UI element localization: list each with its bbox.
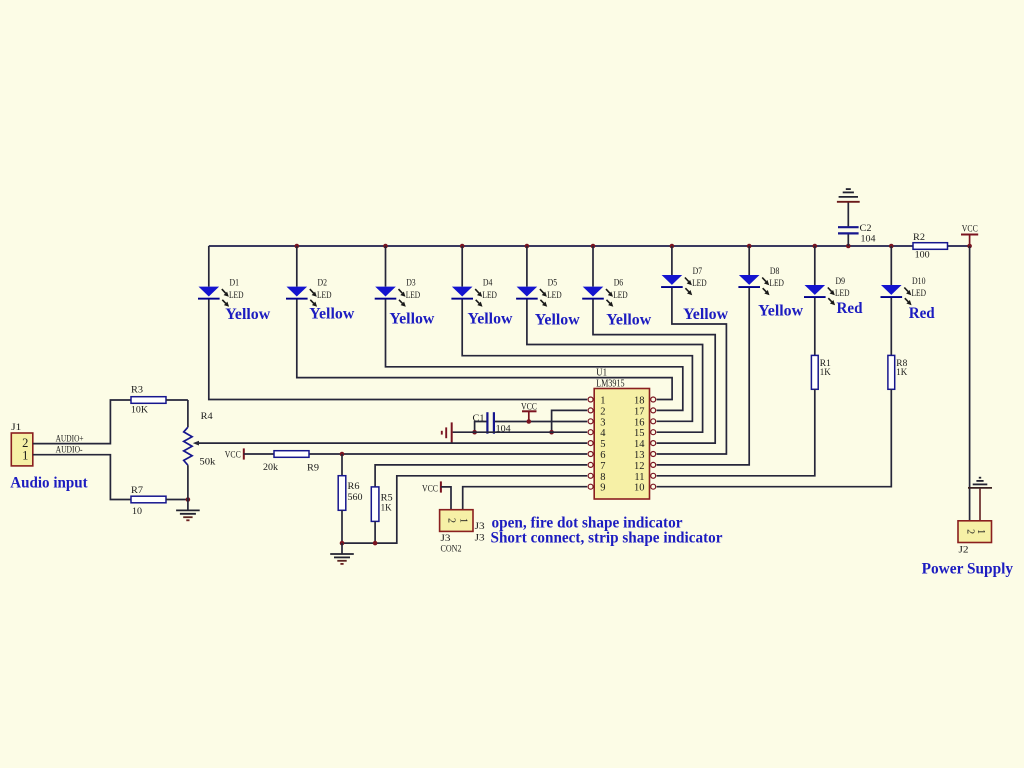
- svg-text:Yellow: Yellow: [468, 311, 513, 328]
- resistor R9: [244, 451, 587, 474]
- node R9/R6 junction: [340, 452, 345, 457]
- svg-text:5: 5: [600, 439, 605, 450]
- ground below R6: [330, 543, 354, 564]
- svg-text:1: 1: [457, 518, 468, 523]
- label Power Supply: [922, 561, 1014, 578]
- svg-text:104: 104: [861, 235, 876, 245]
- svg-text:LED: LED: [482, 291, 497, 301]
- wire AUDIO-: [33, 446, 131, 500]
- pin 2: [588, 406, 605, 417]
- node rail junctions: [295, 244, 972, 249]
- svg-text:8: 8: [600, 472, 605, 483]
- power VCC top right: [961, 224, 978, 246]
- LED D4: [451, 246, 692, 421]
- svg-text:LED: LED: [317, 291, 332, 301]
- svg-text:J3: J3: [441, 534, 451, 544]
- svg-text:50k: 50k: [199, 457, 215, 467]
- svg-text:VCC: VCC: [422, 484, 438, 494]
- note text line2: [491, 530, 723, 547]
- pin 4: [588, 428, 606, 439]
- svg-text:D8: D8: [770, 267, 780, 277]
- LED D1: [198, 246, 587, 400]
- svg-text:D6: D6: [614, 279, 624, 289]
- connector J2 power supply: [958, 521, 992, 556]
- svg-text:J2: J2: [959, 546, 969, 556]
- svg-text:1K: 1K: [820, 368, 831, 378]
- potentiometer R4: [184, 400, 216, 500]
- svg-text:1: 1: [600, 396, 605, 407]
- svg-text:LED: LED: [229, 291, 244, 301]
- svg-text:LED: LED: [613, 291, 628, 301]
- svg-text:6: 6: [600, 450, 605, 461]
- svg-text:11: 11: [634, 472, 644, 483]
- wire pin3 net: [495, 421, 587, 423]
- svg-text:Red: Red: [837, 300, 863, 317]
- resistor R1: [657, 355, 831, 475]
- label Audio input: [10, 474, 88, 491]
- resistor R7: [131, 486, 188, 517]
- LED D6: [582, 246, 715, 443]
- svg-text:R7: R7: [131, 486, 143, 496]
- resistor R3: [131, 386, 188, 416]
- svg-text:AUDIO-: AUDIO-: [56, 446, 83, 456]
- svg-text:18: 18: [634, 396, 645, 407]
- svg-text:Yellow: Yellow: [225, 306, 270, 323]
- svg-text:R6: R6: [348, 482, 360, 492]
- svg-text:Yellow: Yellow: [606, 312, 651, 329]
- svg-text:100: 100: [915, 250, 930, 260]
- LED D10: [881, 246, 927, 355]
- ground at pin4: [442, 422, 452, 443]
- svg-text:R3: R3: [131, 386, 143, 396]
- label Yellow D8: [758, 303, 803, 320]
- svg-text:D2: D2: [318, 279, 328, 289]
- ground below R7: [176, 500, 200, 521]
- svg-text:7: 7: [600, 461, 605, 472]
- svg-text:CON2: CON2: [441, 545, 462, 555]
- label Yellow D7: [683, 306, 728, 323]
- svg-text:Power Supply: Power Supply: [922, 561, 1014, 578]
- svg-text:AUDIO+: AUDIO+: [56, 434, 84, 444]
- LED D2: [286, 246, 672, 400]
- capacitor C2: [838, 202, 876, 246]
- LED D7: [657, 246, 727, 454]
- svg-text:D7: D7: [693, 267, 703, 277]
- svg-text:LED: LED: [835, 289, 850, 299]
- svg-text:17: 17: [634, 406, 645, 417]
- svg-text:R5: R5: [381, 493, 393, 503]
- svg-text:3: 3: [600, 417, 605, 428]
- power VCC at J3: [422, 481, 451, 509]
- svg-text:15: 15: [634, 428, 645, 439]
- svg-text:12: 12: [634, 461, 645, 472]
- ground above C2: [837, 189, 860, 202]
- pin 9: [588, 483, 605, 494]
- svg-text:Short connect, strip shape ind: Short connect, strip shape indicator: [491, 530, 723, 547]
- pin 15: [634, 428, 656, 439]
- label Yellow D4: [468, 311, 513, 328]
- wire pin2 to pin4 net: [549, 410, 587, 434]
- svg-text:9: 9: [600, 483, 605, 494]
- svg-text:2: 2: [446, 518, 457, 523]
- label Yellow D1: [225, 306, 270, 323]
- svg-text:14: 14: [634, 439, 645, 450]
- svg-text:LED: LED: [692, 279, 707, 289]
- capacitor C1: [473, 412, 511, 434]
- pin 13: [634, 450, 656, 461]
- svg-text:D4: D4: [483, 279, 493, 289]
- svg-text:R9: R9: [307, 463, 319, 473]
- label Yellow D6: [606, 312, 651, 329]
- wire C1 left plate to pin4 net: [472, 422, 486, 435]
- op-amp U1 LM3915 body: [594, 368, 649, 499]
- resistor R5: [371, 465, 587, 543]
- resistor R6: [338, 454, 363, 543]
- svg-text:J3: J3: [475, 534, 485, 544]
- svg-text:LED: LED: [547, 291, 562, 301]
- label Yellow D2: [309, 306, 354, 323]
- svg-text:D10: D10: [912, 277, 926, 287]
- pin 16: [634, 417, 656, 428]
- svg-text:1: 1: [975, 529, 986, 534]
- svg-text:Yellow: Yellow: [309, 306, 354, 323]
- svg-text:1K: 1K: [896, 368, 907, 378]
- svg-text:560: 560: [348, 493, 363, 503]
- svg-text:Red: Red: [909, 305, 935, 322]
- pin 1: [588, 396, 605, 407]
- svg-text:LED: LED: [406, 291, 421, 301]
- connector J1 audio input: [11, 423, 33, 466]
- svg-text:Yellow: Yellow: [535, 312, 580, 329]
- pin 7: [588, 461, 605, 472]
- svg-text:D3: D3: [406, 279, 416, 289]
- pin 14: [634, 439, 656, 450]
- svg-text:J1: J1: [11, 423, 21, 433]
- svg-text:1: 1: [22, 448, 28, 462]
- power VCC at R9: [225, 448, 244, 460]
- resistor R8: [657, 355, 908, 486]
- pin 6: [588, 450, 605, 461]
- note text line1: [492, 514, 683, 531]
- svg-text:LED: LED: [769, 279, 784, 289]
- svg-text:C2: C2: [860, 224, 872, 234]
- svg-text:D9: D9: [836, 277, 846, 287]
- wire pin9 to J3: [463, 487, 588, 510]
- node R7/R4 junction: [186, 497, 191, 502]
- svg-text:J3: J3: [475, 522, 485, 532]
- pin 12: [634, 461, 656, 472]
- LED D3: [375, 246, 683, 410]
- svg-text:LM3915: LM3915: [596, 378, 625, 389]
- svg-text:D5: D5: [548, 279, 558, 289]
- label Yellow D3: [389, 311, 434, 328]
- pin 3: [588, 417, 605, 428]
- power VCC at pin3: [521, 402, 537, 424]
- pin 10: [634, 483, 656, 494]
- svg-text:10: 10: [634, 483, 645, 494]
- wire pin5 to R4 wiper: [193, 441, 587, 446]
- svg-text:4: 4: [600, 428, 606, 439]
- wire VCC rail down to J2: [969, 246, 971, 521]
- ground above J2: [968, 478, 992, 521]
- svg-text:Audio input: Audio input: [10, 474, 88, 491]
- label Red D10: [909, 305, 935, 322]
- svg-text:Yellow: Yellow: [683, 306, 728, 323]
- svg-text:Yellow: Yellow: [758, 303, 803, 320]
- pin 17: [634, 406, 656, 417]
- wire pin4 net: [453, 431, 588, 433]
- svg-text:10K: 10K: [131, 406, 148, 416]
- label Red D9: [837, 300, 863, 317]
- pin 5: [588, 439, 605, 450]
- svg-text:R2: R2: [913, 233, 925, 243]
- svg-text:10: 10: [132, 507, 142, 517]
- LED D9: [804, 246, 850, 355]
- svg-text:16: 16: [634, 417, 645, 428]
- LED D5: [516, 246, 703, 432]
- svg-text:2: 2: [600, 406, 605, 417]
- svg-text:Yellow: Yellow: [389, 311, 434, 328]
- wire pin8 to ground: [340, 476, 588, 546]
- svg-text:U1: U1: [596, 368, 607, 379]
- svg-text:R4: R4: [201, 412, 213, 422]
- pin 11: [634, 472, 655, 483]
- svg-text:2: 2: [964, 529, 975, 534]
- svg-text:D1: D1: [230, 279, 240, 289]
- svg-text:LED: LED: [912, 289, 927, 299]
- svg-text:1K: 1K: [381, 504, 392, 514]
- pin 8: [588, 472, 605, 483]
- svg-text:VCC: VCC: [225, 451, 241, 461]
- wire top power rail: [209, 245, 970, 247]
- label Yellow D5: [535, 312, 580, 329]
- pin 18: [634, 396, 656, 407]
- svg-text:13: 13: [634, 450, 645, 461]
- resistor R2: [913, 233, 948, 260]
- LED D8: [657, 246, 784, 465]
- svg-text:VCC: VCC: [521, 402, 537, 412]
- connector J3 CON2: [440, 510, 485, 555]
- svg-text:20k: 20k: [263, 463, 278, 473]
- wire AUDIO+: [33, 400, 131, 444]
- svg-text:VCC: VCC: [962, 224, 978, 234]
